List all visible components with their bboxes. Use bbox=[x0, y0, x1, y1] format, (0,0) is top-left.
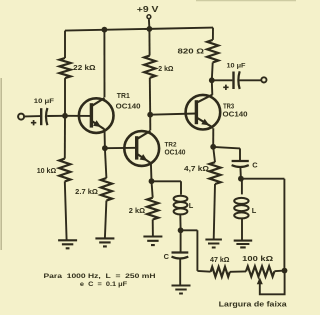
wire 2.7k to ground bbox=[105, 201, 107, 239]
svg-text:10 μF: 10 μF bbox=[227, 63, 246, 70]
wire TR3 emitter to 4.7k bbox=[213, 147, 215, 162]
polarity + output cap bbox=[223, 85, 228, 90]
wire rail to 2k collector resistor bbox=[148, 29, 150, 56]
resistor 2k collector load bbox=[144, 56, 155, 78]
wiper arrow 100k bbox=[257, 277, 263, 284]
wire TR2 emitter to inductor L bbox=[152, 181, 182, 194]
wire TR3 collector up bbox=[211, 80, 214, 95]
resistor 820 bbox=[207, 40, 218, 63]
+9V terminal bbox=[147, 15, 151, 19]
node 820/TR3 collector/output cap bbox=[209, 77, 215, 83]
wire input terminal to capacitor bbox=[25, 115, 40, 117]
svg-text:2 kΩ: 2 kΩ bbox=[129, 206, 145, 215]
wire C right to node bbox=[239, 167, 242, 179]
svg-text:L: L bbox=[189, 201, 194, 210]
resistor 10k bbox=[59, 159, 70, 182]
wire output node to capacitor bbox=[212, 79, 233, 81]
node rail/+9V/2k junction bbox=[147, 26, 153, 32]
svg-text:4,7 kΩ: 4,7 kΩ bbox=[184, 166, 209, 173]
input terminal bbox=[18, 114, 24, 120]
wire 820 to collector node bbox=[211, 62, 214, 80]
ground below 2k emitter bbox=[143, 237, 162, 246]
node TR2 emitter junction bbox=[149, 178, 155, 184]
wire capacitor to base node bbox=[47, 115, 65, 117]
svg-text:10 kΩ: 10 kΩ bbox=[37, 166, 57, 175]
node L/C/filter junction left bbox=[178, 227, 184, 233]
wire +9V supply rail bbox=[65, 28, 213, 31]
resistor 22k bbox=[59, 58, 70, 78]
svg-text:L: L bbox=[252, 206, 257, 215]
capacitor 10uF output coupling bbox=[232, 72, 234, 90]
wire TR1 collector to rail bbox=[103, 30, 105, 98]
capacitor 10uF input coupling bbox=[40, 108, 42, 125]
svg-text:100 kΩ: 100 kΩ bbox=[242, 256, 273, 263]
svg-text:Para 1000 Hz, L = 250 mH: Para 1000 Hz, L = 250 mH bbox=[44, 273, 156, 280]
node input/22k/10k/TR1 base junction bbox=[62, 113, 68, 119]
svg-text:+9 V: +9 V bbox=[137, 5, 160, 14]
transistor TR2 OC140 bbox=[124, 131, 159, 166]
svg-text:2.7 kΩ: 2.7 kΩ bbox=[75, 187, 98, 196]
svg-text:22 kΩ: 22 kΩ bbox=[73, 63, 96, 72]
wire wiper to right node bbox=[260, 271, 285, 295]
wire 4.7k to ground bbox=[214, 184, 215, 240]
wire TR3 emitter to C right bbox=[213, 147, 240, 160]
svg-text:Largura de faixa: Largura de faixa bbox=[219, 302, 287, 309]
wire TR1 emitter to 2.7k bbox=[105, 148, 107, 178]
wire base node to 10k bbox=[64, 116, 66, 159]
ground below 10k bbox=[58, 240, 77, 248]
wire rail to 820 resistor bbox=[212, 28, 214, 40]
wire TR3 emitter down bbox=[212, 128, 214, 147]
wire base node to TR1 base bbox=[65, 115, 92, 117]
capacitor C right bbox=[232, 160, 249, 162]
wire feedback node to 100k right end bbox=[241, 179, 285, 271]
wire node to capacitor C left bbox=[180, 230, 182, 251]
ground below 4.7k bbox=[205, 240, 222, 248]
node TR3 emitter junction bbox=[210, 144, 216, 150]
polarity + input cap bbox=[31, 120, 36, 125]
resistor 47k bbox=[211, 267, 230, 277]
svg-text:10 μF: 10 μF bbox=[34, 98, 54, 105]
svg-text:TR1: TR1 bbox=[117, 93, 130, 100]
svg-text:OC140: OC140 bbox=[116, 101, 141, 110]
wire 10k to ground bbox=[65, 181, 67, 239]
output terminal bbox=[261, 77, 266, 82]
resistor 2k emitter bbox=[147, 198, 158, 220]
transistor TR1 OC140 bbox=[79, 98, 114, 133]
svg-text:e C = 0.1 μF: e C = 0.1 μF bbox=[80, 281, 127, 288]
svg-text:820 Ω: 820 Ω bbox=[178, 46, 205, 55]
transistor TR3 OC140 bbox=[186, 95, 221, 130]
wire TR1 emitter to TR2 base bbox=[105, 147, 137, 149]
wire 2k to TR2 collector node bbox=[149, 78, 151, 115]
ground below 2.7k bbox=[95, 238, 114, 246]
wire node to inductor L right bbox=[241, 179, 243, 195]
node rail/TR1 collector junction bbox=[102, 27, 108, 33]
svg-text:TR2: TR2 bbox=[165, 142, 177, 149]
ground below C left bbox=[172, 286, 191, 294]
wire 47k to 100k bbox=[230, 270, 246, 272]
svg-text:C: C bbox=[164, 252, 170, 261]
wire capacitor to output terminal bbox=[240, 79, 262, 81]
svg-text:OC140: OC140 bbox=[223, 110, 248, 119]
inductor L left bbox=[174, 196, 188, 202]
ground below L right bbox=[234, 241, 253, 248]
wire TR2 emitter to 2k bbox=[152, 181, 153, 198]
node 100k right end bbox=[282, 268, 288, 274]
wire TR2 emitter down bbox=[150, 163, 153, 181]
inductor L right bbox=[234, 198, 248, 204]
capacitor C left bbox=[172, 251, 189, 253]
resistor 2.7k bbox=[101, 178, 112, 201]
svg-text:2 kΩ: 2 kΩ bbox=[158, 64, 173, 73]
node 2k/TR2 collector/TR3 base bbox=[147, 112, 153, 118]
potentiometer 100k bbox=[246, 266, 274, 276]
wire left node to 47k bbox=[181, 230, 211, 271]
resistor 4.7k bbox=[209, 162, 220, 184]
wire 100k to right node bbox=[274, 270, 284, 273]
svg-text:47 kΩ: 47 kΩ bbox=[210, 257, 230, 264]
wire C left to ground bbox=[179, 259, 181, 286]
wire 22k to base node bbox=[64, 78, 66, 116]
wire +9V terminal to rail bbox=[148, 19, 151, 29]
wire TR2 collector up bbox=[149, 115, 151, 131]
svg-text:C: C bbox=[252, 161, 258, 170]
node C/L/feedback junction right bbox=[238, 176, 244, 182]
wire TR1 emitter down bbox=[104, 129, 106, 148]
node TR1 emitter junction bbox=[102, 145, 108, 151]
wire 2k emitter to ground bbox=[152, 220, 154, 237]
wire node to TR3 base bbox=[150, 114, 196, 115]
svg-text:OC140: OC140 bbox=[165, 149, 186, 156]
wire rail to 22k resistor bbox=[64, 31, 66, 58]
